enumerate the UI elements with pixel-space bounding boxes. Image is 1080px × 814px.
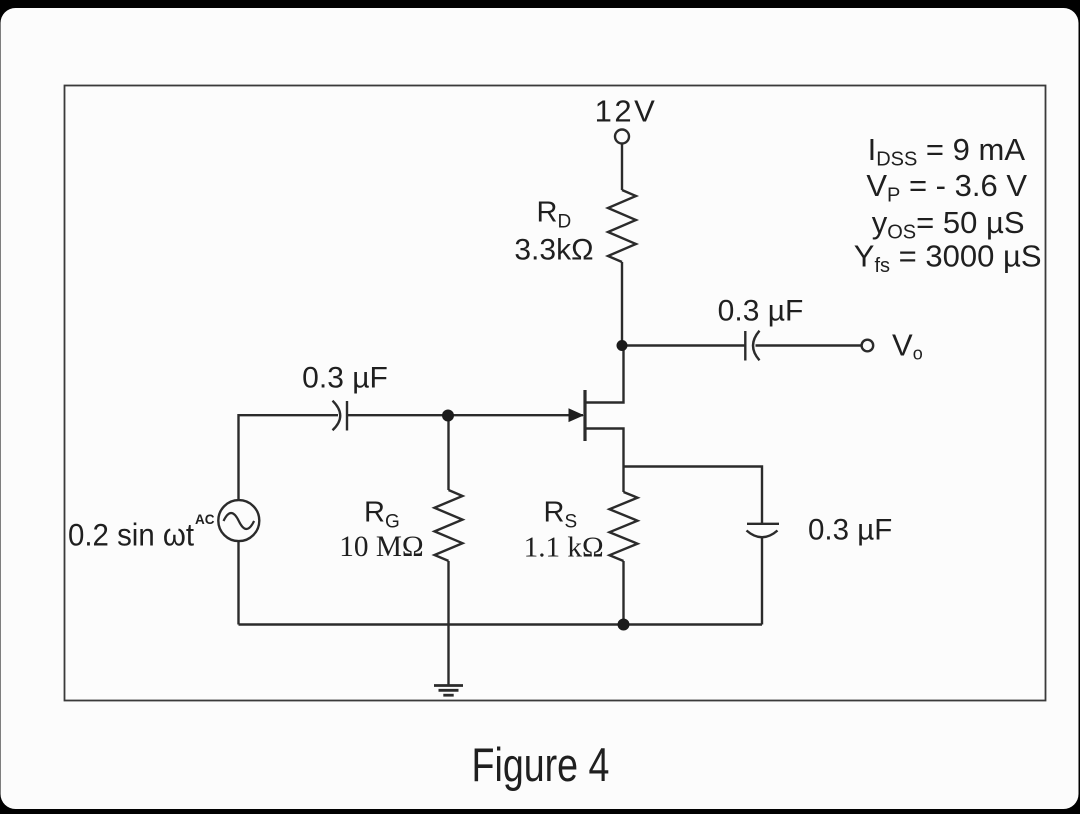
capacitor input 0.3uF right plate xyxy=(346,401,348,431)
resistor RS zigzag xyxy=(610,492,638,561)
wire source node to RS xyxy=(622,467,624,493)
wire AC source to input capacitor xyxy=(239,415,339,500)
JFET gate arrowhead xyxy=(569,408,585,422)
wire drain node to output capacitor xyxy=(622,344,745,346)
capacitor bypass 0.3uF curved plate xyxy=(747,531,778,538)
JFET Q1 source lead xyxy=(585,429,624,467)
ground symbol xyxy=(434,686,463,696)
wire capacitor to Vo terminal xyxy=(756,344,862,346)
svg-text:12V: 12V xyxy=(595,94,658,129)
wire input capacitor to gate node xyxy=(347,414,448,416)
wire source branch to bypass capacitor xyxy=(624,467,763,524)
node drain junction dot xyxy=(617,340,628,351)
capacitor output 0.3uF left plate xyxy=(744,331,746,361)
svg-text:AC: AC xyxy=(195,512,215,527)
AC source sine wave xyxy=(224,513,255,529)
output terminal Vo xyxy=(862,340,874,352)
capacitor input 0.3uF curved plate xyxy=(333,401,341,431)
wire gate node down to RG xyxy=(447,415,449,490)
JFET Q1 channel bar xyxy=(583,390,586,441)
svg-text:Figure 4: Figure 4 xyxy=(472,739,610,792)
resistor RD zigzag xyxy=(608,190,636,262)
capacitor bypass 0.3uF top plate xyxy=(747,523,779,525)
svg-text:1.1 kΩ: 1.1 kΩ xyxy=(524,532,604,564)
wire RS to bottom node xyxy=(622,561,624,625)
wire gate from input node xyxy=(448,414,583,416)
JFET Q1 drain lead xyxy=(585,346,624,403)
wire bypass capacitor to bottom rail xyxy=(761,537,763,625)
svg-text:0.3 µF: 0.3 µF xyxy=(808,514,892,547)
node source-bottom junction dot xyxy=(618,619,630,631)
wire RD to drain node xyxy=(621,262,623,346)
schematic border frame xyxy=(65,86,1046,701)
capacitor output 0.3uF curved plate xyxy=(753,331,760,361)
svg-text:0.3 µF: 0.3 µF xyxy=(302,362,388,395)
wire RG to ground xyxy=(447,561,449,686)
node gate junction dot xyxy=(442,410,454,422)
svg-text:10 MΩ: 10 MΩ xyxy=(339,531,424,563)
supply terminal 12V xyxy=(615,130,629,144)
wire supply to RD xyxy=(621,144,623,190)
svg-text:0.2 sin ωt: 0.2 sin ωt xyxy=(68,517,194,553)
AC source circle xyxy=(218,500,259,541)
bottom rail wire xyxy=(239,623,763,625)
wire AC source to bottom rail xyxy=(237,541,239,624)
svg-text:3.3kΩ: 3.3kΩ xyxy=(514,234,593,267)
svg-text:0.3 µF: 0.3 µF xyxy=(718,295,804,328)
resistor RG zigzag xyxy=(435,490,463,561)
